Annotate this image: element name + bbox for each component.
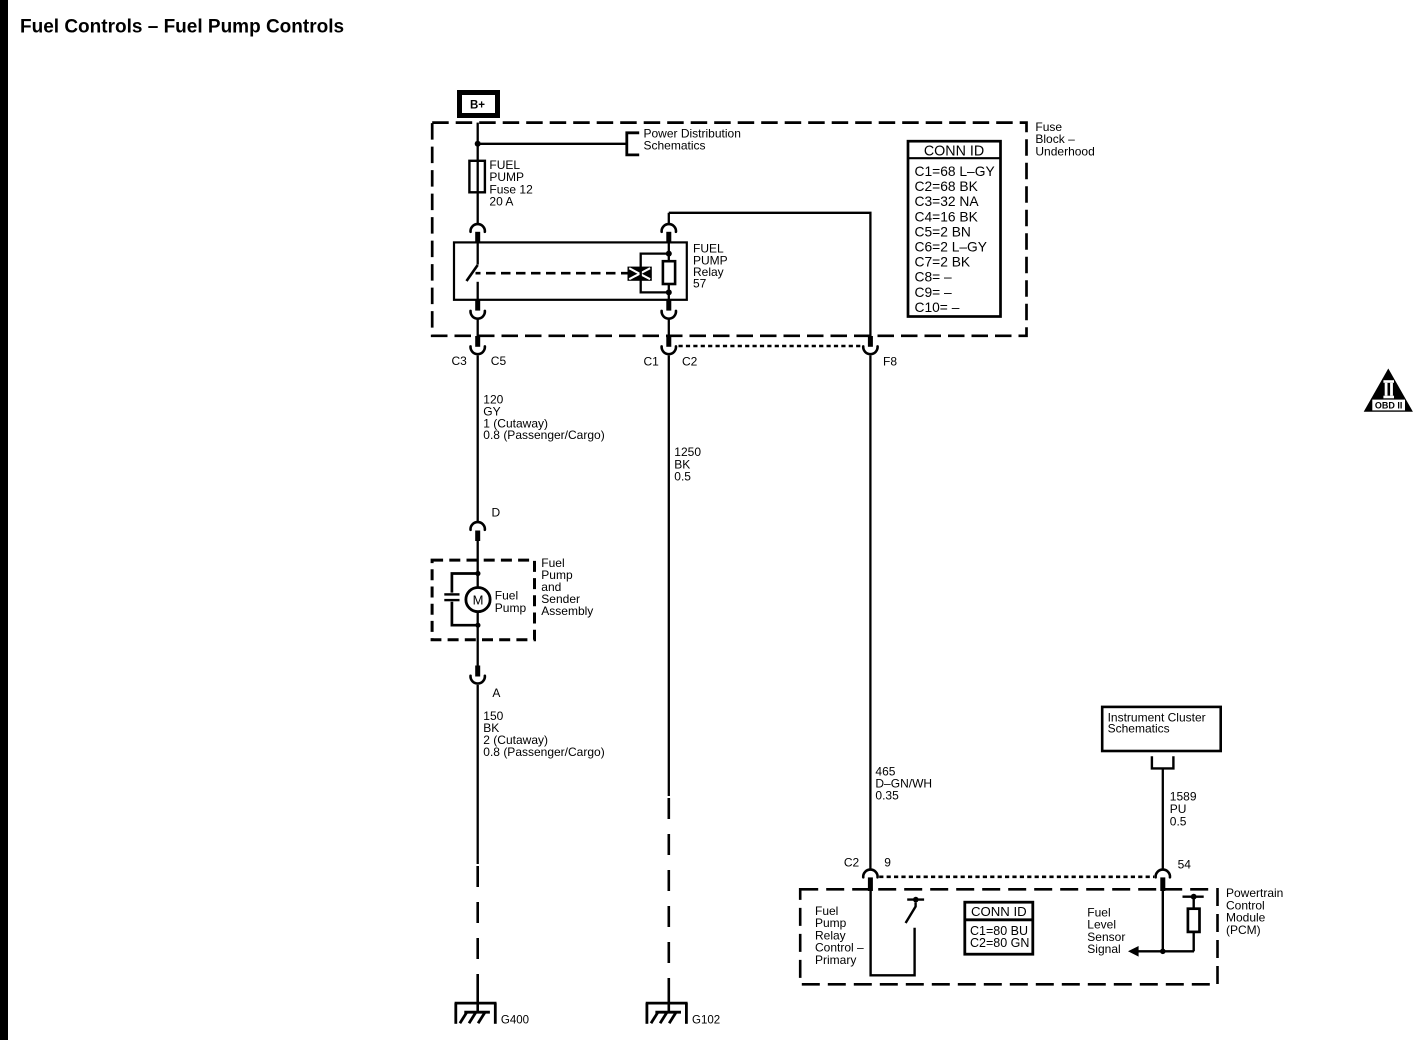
connector C3/C5 pin bbox=[475, 336, 480, 347]
wire to G400 dashed bbox=[476, 866, 479, 993]
wire relay to boundary left bbox=[477, 319, 479, 337]
CONN ID table fuse block bbox=[908, 141, 1001, 316]
label Fuel Pump and Sender Assembly bbox=[541, 556, 593, 618]
svg-text:0.35: 0.35 bbox=[875, 789, 899, 803]
fuel pump and sender assembly dashed box bbox=[432, 560, 534, 640]
svg-text:G102: G102 bbox=[692, 1014, 720, 1026]
connector arc C1/C2 bbox=[863, 346, 877, 354]
relay switch bbox=[467, 242, 478, 299]
relay output connector arc left bbox=[475, 300, 480, 311]
svg-text:C2: C2 bbox=[682, 355, 698, 369]
svg-text:Primary: Primary bbox=[815, 953, 856, 967]
wire A to splice solid bbox=[477, 685, 479, 864]
bracket below cluster box bbox=[1152, 756, 1174, 768]
fuse block underhood dashed box bbox=[432, 123, 1026, 336]
node dot pump top bbox=[475, 571, 480, 576]
svg-text:C5=2 BN: C5=2 BN bbox=[915, 224, 971, 239]
svg-text:(PCM): (PCM) bbox=[1226, 923, 1261, 937]
svg-text:OBD II: OBD II bbox=[1375, 400, 1403, 410]
wire cluster to 54 bbox=[1162, 768, 1164, 869]
svg-text:9: 9 bbox=[884, 856, 891, 870]
svg-text:C2=80 GN: C2=80 GN bbox=[970, 936, 1029, 950]
relay actuator dashed link bbox=[476, 272, 628, 275]
signal wire horizontal bbox=[1138, 950, 1195, 952]
svg-text:Signal: Signal bbox=[1087, 942, 1120, 956]
connector arc into relay switch side bbox=[471, 224, 485, 232]
svg-text:0.8 (Passenger/Cargo): 0.8 (Passenger/Cargo) bbox=[483, 428, 604, 442]
svg-text:54: 54 bbox=[1178, 858, 1192, 872]
PCM driver switch node dot bbox=[913, 897, 919, 903]
svg-text:C8= –: C8= – bbox=[915, 270, 953, 285]
connector A arc bbox=[471, 676, 485, 684]
svg-text:Pump: Pump bbox=[495, 601, 527, 615]
ground G102 bbox=[646, 993, 688, 1024]
wire through coil bbox=[668, 242, 670, 261]
svg-text:0.5: 0.5 bbox=[674, 470, 691, 484]
capacitor plates bbox=[444, 593, 459, 595]
PCM driver switch blade bbox=[906, 902, 916, 923]
connector arc C2/9 bbox=[863, 870, 877, 878]
label Power Distribution Schematics bbox=[644, 126, 741, 152]
label 1250 BK circuit bbox=[674, 445, 701, 483]
label Powertrain Control Module PCM bbox=[1226, 886, 1283, 937]
OBD II symbol bbox=[1364, 369, 1413, 412]
wire B+ to fuse bbox=[477, 123, 479, 162]
node dot pump bottom bbox=[475, 623, 480, 628]
label Fuel Pump Relay Control Primary bbox=[815, 904, 864, 967]
svg-text:A: A bbox=[492, 686, 500, 700]
connector arc C3/C5 bbox=[662, 346, 676, 354]
svg-text:C3: C3 bbox=[452, 354, 468, 368]
connector C1/C2 pin bbox=[666, 336, 671, 347]
pull-up resistor bbox=[1188, 909, 1200, 932]
wire to power distribution bracket bbox=[478, 143, 627, 145]
PCM relay control wire bbox=[871, 889, 915, 975]
svg-text:57: 57 bbox=[693, 277, 707, 291]
relay output connector arc right bbox=[666, 300, 671, 311]
PCM driver switch contact bar bbox=[907, 898, 924, 900]
svg-text:C2: C2 bbox=[844, 856, 860, 870]
ground G400 bbox=[455, 993, 497, 1024]
CONN ID table PCM bbox=[965, 902, 1033, 954]
svg-text:C1: C1 bbox=[644, 355, 660, 369]
capacitor branch lower bbox=[452, 602, 478, 625]
svg-text:Fuel Controls – Fuel Pump Cont: Fuel Controls – Fuel Pump Controls bbox=[20, 17, 344, 38]
relay box bbox=[454, 242, 687, 299]
signal arrow bbox=[1128, 946, 1139, 957]
wire resistor to signal bbox=[1192, 932, 1194, 951]
svg-text:C6=2 L–GY: C6=2 L–GY bbox=[915, 240, 987, 255]
svg-text:M: M bbox=[473, 593, 484, 608]
label 1589 PU circuit bbox=[1170, 789, 1197, 828]
wire 54 into PCM bbox=[1162, 889, 1164, 951]
relay coil bracket bbox=[641, 254, 669, 293]
PCM dashed box bbox=[800, 889, 1217, 984]
connector arc F8 bbox=[471, 311, 485, 319]
dotted connector line C2 to 54 bbox=[879, 875, 1154, 878]
relay coil crossed box bbox=[628, 267, 652, 281]
svg-text:C1=68 L–GY: C1=68 L–GY bbox=[915, 164, 995, 179]
svg-text:C5: C5 bbox=[491, 354, 507, 368]
wire C2 to G102 solid bbox=[668, 355, 670, 796]
svg-text:Assembly: Assembly bbox=[541, 604, 593, 618]
label 150 BK circuit bbox=[483, 709, 604, 759]
svg-text:C9= –: C9= – bbox=[915, 285, 953, 300]
connector pin 54 bbox=[1160, 877, 1165, 891]
fuel pump motor bbox=[466, 588, 527, 615]
svg-text:C2=68 BK: C2=68 BK bbox=[915, 179, 979, 194]
node dot coil top bbox=[666, 251, 672, 257]
label 465 D-GN/WH circuit bbox=[875, 765, 932, 803]
wire C5 to D bbox=[477, 355, 479, 521]
relay coil element bbox=[663, 261, 675, 284]
connector pin F8 at boundary bbox=[868, 336, 873, 347]
wire D to pump bbox=[477, 541, 479, 588]
connector D pin bbox=[475, 531, 480, 542]
svg-text:Schematics: Schematics bbox=[644, 138, 706, 152]
node dot signal junction bbox=[1160, 949, 1166, 955]
wire F8 to PCM bbox=[869, 355, 871, 869]
svg-text:0.5: 0.5 bbox=[1170, 814, 1187, 828]
fuse FUEL PUMP Fuse 12 20A bbox=[469, 158, 533, 209]
svg-text:CONN ID: CONN ID bbox=[924, 143, 984, 159]
internal supply bar bbox=[1183, 896, 1204, 898]
wire relay to boundary right bbox=[668, 319, 670, 337]
svg-text:B+: B+ bbox=[470, 100, 485, 112]
label Fuel Level Sensor Signal bbox=[1087, 906, 1125, 957]
svg-text:0.8 (Passenger/Cargo): 0.8 (Passenger/Cargo) bbox=[483, 745, 604, 759]
connector A pin bbox=[475, 666, 480, 677]
dotted connector line C2 to F8 bbox=[679, 345, 862, 348]
label Fuse Block Underhood bbox=[1035, 120, 1094, 158]
node dot coil bottom bbox=[666, 289, 672, 295]
node dot resistor top bbox=[1191, 894, 1197, 900]
power distribution schematics bracket bbox=[627, 133, 639, 155]
label 120 GY circuit bbox=[483, 393, 604, 442]
wire relay coil to F8 bbox=[669, 213, 871, 337]
capacitor branch upper bbox=[452, 574, 478, 593]
wire fuse to relay connector bbox=[477, 192, 479, 225]
connector arc 54 bbox=[1156, 870, 1170, 878]
svg-text:CONN ID: CONN ID bbox=[971, 904, 1027, 919]
wire pump to A bbox=[477, 612, 479, 666]
svg-text:C3=32 NA: C3=32 NA bbox=[915, 194, 980, 209]
battery feed B+ terminal bbox=[460, 93, 498, 116]
svg-text:C7=2 BK: C7=2 BK bbox=[915, 255, 971, 270]
svg-text:G400: G400 bbox=[501, 1014, 529, 1026]
connector D arc bbox=[471, 522, 485, 530]
node junction at B+ feed bbox=[475, 141, 481, 147]
svg-text:D: D bbox=[492, 506, 501, 520]
svg-text:Schematics: Schematics bbox=[1108, 722, 1170, 736]
svg-text:C10= –: C10= – bbox=[915, 300, 960, 315]
instrument cluster schematics box bbox=[1102, 707, 1221, 751]
svg-text:F8: F8 bbox=[883, 355, 897, 369]
connector pin into relay switch side bbox=[475, 232, 480, 243]
connector pin C2/9 bbox=[868, 877, 873, 891]
wire to G102 dashed bbox=[667, 798, 670, 993]
svg-text:20 A: 20 A bbox=[489, 195, 513, 209]
resistor top stub bbox=[1192, 897, 1194, 909]
svg-text:C4=16 BK: C4=16 BK bbox=[915, 209, 979, 224]
label FUEL PUMP Relay 57 bbox=[693, 242, 728, 291]
svg-text:Underhood: Underhood bbox=[1035, 144, 1094, 158]
connector arc above relay coil side bbox=[668, 213, 670, 225]
